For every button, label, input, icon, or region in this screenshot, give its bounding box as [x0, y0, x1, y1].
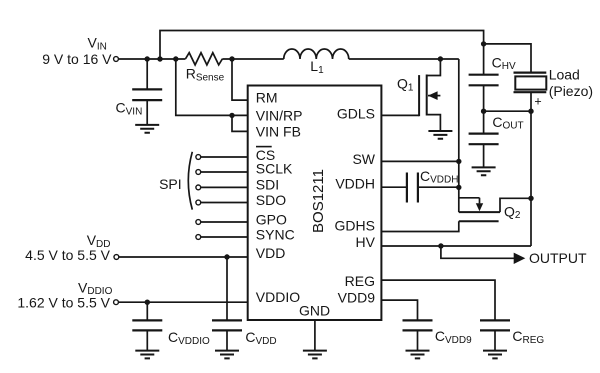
- node VDDIO terminal: [114, 300, 119, 305]
- wire VIN main: [118, 58, 185, 60]
- svg-text:L1: L1: [310, 58, 324, 76]
- svg-text:COUT: COUT: [492, 114, 523, 132]
- node load bottom: [528, 109, 533, 114]
- node OUTPUT branch: [438, 243, 443, 248]
- svg-text:RM: RM: [256, 90, 278, 106]
- ground CVIN: [135, 125, 159, 133]
- svg-text:Q2: Q2: [504, 203, 521, 221]
- svg-text:BOS1211: BOS1211: [310, 169, 327, 233]
- wire SW pin: [381, 160, 458, 162]
- pin CS overline: [256, 146, 272, 148]
- node top rail tap: [157, 56, 162, 61]
- wire SCLK: [201, 171, 248, 173]
- node SDO terminal: [196, 200, 201, 205]
- wire output right vertical: [530, 111, 532, 246]
- svg-text:GND: GND: [299, 303, 330, 319]
- wire CS: [201, 156, 248, 158]
- svg-text:REG: REG: [345, 273, 375, 289]
- load piezo: [514, 73, 547, 112]
- node CHV bottom: [481, 109, 486, 114]
- node GPO terminal: [196, 220, 201, 225]
- capacitor CVDDH: [381, 173, 458, 203]
- svg-text:SW: SW: [352, 151, 375, 167]
- svg-text:(Piezo): (Piezo): [549, 83, 593, 99]
- svg-text:Q1: Q1: [397, 76, 414, 94]
- svg-text:RSense: RSense: [186, 66, 225, 84]
- capacitor CVDD9: [403, 320, 433, 350]
- svg-text:VDD9: VDD9: [338, 290, 376, 306]
- node SYNC terminal: [196, 235, 201, 240]
- wire RM tap: [232, 59, 248, 100]
- svg-text:GPO: GPO: [256, 212, 287, 228]
- wire OUTPUT branch: [441, 246, 514, 258]
- svg-text:VDD: VDD: [256, 245, 286, 261]
- node Q1 drain: [438, 56, 443, 61]
- ground CREG: [483, 351, 507, 359]
- wire REG pin: [381, 280, 495, 320]
- capacitor CREG: [480, 320, 510, 350]
- wire SW node vertical: [458, 59, 460, 212]
- wire GND pin: [314, 320, 316, 351]
- wire HV pin: [381, 245, 531, 247]
- node OUTPUT arrow: [514, 253, 526, 264]
- resistor RSense: [186, 53, 223, 65]
- node CHV top: [481, 41, 486, 46]
- node CVDDIO tap: [145, 300, 150, 305]
- svg-text:CVDDIO: CVDDIO: [168, 329, 210, 347]
- svg-text:CVDD9: CVDD9: [435, 328, 472, 346]
- capacitor CHV: [469, 44, 499, 111]
- wire sense tap to VIN/RP: [176, 59, 248, 115]
- node VDD terminal: [114, 255, 119, 260]
- svg-text:CVDDH: CVDDH: [420, 168, 458, 186]
- capacitor COUT: [469, 111, 499, 167]
- SPI bracket: [188, 152, 192, 210]
- svg-text:CHV: CHV: [492, 54, 516, 72]
- svg-text:OUTPUT: OUTPUT: [529, 250, 587, 266]
- svg-text:VDDH: VDDH: [335, 176, 375, 192]
- wire VDD input: [119, 256, 248, 258]
- node SCLK terminal: [196, 170, 201, 175]
- node VIN terminal: [114, 57, 119, 62]
- capacitor CVDD: [212, 257, 242, 351]
- svg-text:GDLS: GDLS: [337, 106, 375, 122]
- ground CVDD: [215, 351, 239, 359]
- wire L1 to SW node: [349, 58, 459, 60]
- svg-text:CVDD: CVDD: [245, 329, 276, 347]
- capacitor CVIN: [132, 59, 162, 125]
- node Q2 right: [528, 196, 533, 201]
- svg-text:VIN: VIN: [88, 35, 107, 53]
- op IC BOS1211 box: [248, 86, 382, 321]
- svg-text:SDO: SDO: [256, 192, 286, 208]
- ground CVDD9: [406, 351, 430, 359]
- svg-text:CVIN: CVIN: [116, 100, 143, 118]
- node sense tap: [173, 56, 178, 61]
- svg-text:SYNC: SYNC: [256, 227, 295, 243]
- svg-text:HV: HV: [356, 234, 376, 250]
- svg-text:+: +: [534, 94, 541, 108]
- terminal circles: [114, 57, 201, 305]
- ground Q1: [428, 131, 452, 139]
- node SDI terminal: [196, 185, 201, 190]
- node SW: [456, 159, 461, 164]
- wire top rail: [160, 31, 484, 60]
- svg-text:CREG: CREG: [512, 328, 544, 346]
- svg-text:9 V to 16 V: 9 V to 16 V: [42, 51, 112, 67]
- wire VDDIO input: [118, 301, 247, 303]
- svg-text:VDDIO: VDDIO: [256, 289, 300, 305]
- node CS terminal: [196, 155, 201, 160]
- wire RSense to L1: [222, 58, 283, 60]
- wire VDD9 pin: [381, 300, 417, 320]
- wire SDI: [201, 186, 248, 188]
- inductor L1: [284, 49, 349, 59]
- transistor Q2: [459, 198, 531, 221]
- wire CHV bottom to load bottom: [484, 110, 531, 112]
- svg-text:SCLK: SCLK: [256, 160, 293, 176]
- svg-text:GDHS: GDHS: [335, 217, 375, 233]
- transistor Q1: [419, 59, 440, 131]
- wire VIN FB branch: [232, 115, 248, 131]
- wire GDHS to Q2 gate: [381, 221, 458, 231]
- node CVDD tap: [224, 254, 229, 259]
- wire SDO: [201, 202, 248, 204]
- wire GDLS to Q1 gate: [381, 114, 419, 116]
- wire GPO: [201, 221, 248, 223]
- svg-text:VIN FB: VIN FB: [256, 124, 301, 140]
- node RSense right: [229, 56, 234, 61]
- svg-text:VIN/RP: VIN/RP: [256, 107, 303, 123]
- ground CVDDIO: [135, 351, 159, 359]
- ground COUT: [472, 167, 496, 175]
- node CVDDH right: [456, 185, 461, 190]
- wire load branch: [484, 44, 531, 73]
- capacitor CVDDIO: [132, 302, 162, 350]
- ground GND: [303, 351, 327, 359]
- svg-text:1.62 V to 5.5 V: 1.62 V to 5.5 V: [17, 295, 110, 311]
- node VIN/RP FB: [229, 113, 234, 118]
- svg-text:Load: Load: [549, 67, 580, 83]
- svg-text:SPI: SPI: [159, 176, 182, 192]
- svg-text:4.5 V to 5.5 V: 4.5 V to 5.5 V: [25, 247, 110, 263]
- svg-text:SDI: SDI: [256, 176, 279, 192]
- wire SYNC: [201, 236, 248, 238]
- node CVIN tap: [145, 56, 150, 61]
